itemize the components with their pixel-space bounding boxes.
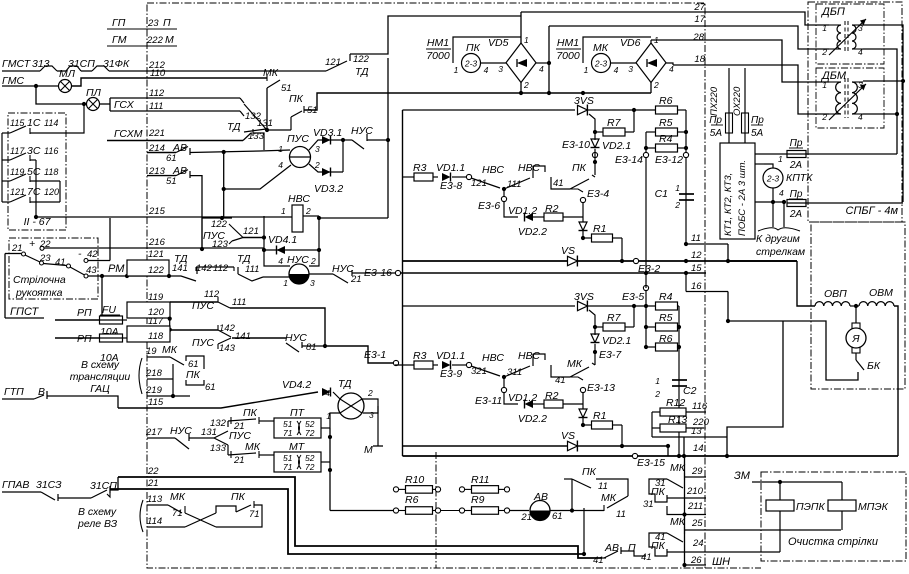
contact ГТП-В fixed — [46, 391, 48, 399]
lamp ПЛ — [87, 98, 100, 111]
svg-text:ПОБС - 2А 3 шт.: ПОБС - 2А 3 шт. — [737, 160, 748, 236]
svg-text:Пр: Пр — [751, 115, 764, 126]
junction 116-215 — [34, 215, 38, 219]
wire ГТП — [2, 398, 34, 400]
junction R1-bottom E2- — [620, 444, 624, 448]
wire НУС-ПУС — [189, 437, 214, 439]
machine ТД circle — [338, 393, 364, 419]
МТ contact squiggle — [297, 455, 301, 469]
contact ПК ВЗ blade — [236, 505, 251, 512]
contact ПУС blade upper — [232, 227, 243, 238]
svg-text:R1: R1 — [593, 223, 606, 235]
vertical R7 right E2- — [633, 306, 635, 327]
contact 31СП fixed — [109, 486, 111, 493]
wire НУС to bus 388 — [367, 139, 388, 141]
contact 31ФК — [92, 66, 109, 71]
svg-text:72: 72 — [305, 462, 315, 472]
svg-text:115: 115 — [10, 118, 25, 128]
vertical 15-16 — [685, 273, 687, 292]
wire 214 — [147, 152, 176, 154]
svg-text:МЛ: МЛ — [59, 68, 76, 80]
svg-text:Е3-15: Е3-15 — [637, 457, 665, 469]
ZM unit Очистка стрілки dash-dot box — [761, 472, 906, 561]
svg-text:ОВМ: ОВМ — [869, 287, 893, 299]
wire ДБМ pin3 — [863, 80, 903, 82]
junction VD5 minus — [519, 91, 523, 95]
wire ПУС down branch — [227, 445, 229, 455]
resistor R10 — [406, 486, 433, 494]
transformer ДБП adjust arrow — [829, 19, 866, 55]
transformer block DBP dashed box — [816, 4, 884, 64]
plug node R6 left — [393, 508, 398, 513]
vertical R12-R13 left — [651, 412, 653, 437]
svg-text:4: 4 — [539, 64, 544, 74]
wire 116 stub — [686, 411, 706, 413]
wire VD6 pin2 down — [650, 83, 652, 94]
diode VD3.1 — [322, 136, 331, 145]
diode VD4.2 — [322, 388, 331, 397]
contact fixed 133 — [240, 111, 244, 116]
lamp МЛ — [59, 80, 72, 93]
handle contact circle 43 — [84, 274, 88, 278]
svg-text:5А: 5А — [710, 128, 723, 139]
svg-text:НВС: НВС — [518, 162, 540, 174]
wire 7С left — [2, 201, 10, 203]
contact АВ-61 fixed — [189, 148, 191, 155]
wire ОВП-ОВМ b — [856, 305, 859, 307]
svg-text:ГСХ: ГСХ — [114, 99, 135, 111]
svg-text:3: 3 — [315, 144, 320, 154]
vertical contact column x=684.5 — [684, 456, 686, 565]
svg-text:61: 61 — [552, 511, 563, 522]
svg-text:НВС: НВС — [288, 193, 310, 205]
wire to НУС machine pin1 — [263, 276, 289, 278]
wire МК-21 to МТ block — [259, 454, 274, 456]
contact НУС-81 fixed — [301, 342, 303, 348]
svg-text:117: 117 — [148, 316, 164, 327]
wire КТ to КПТК — [755, 163, 764, 165]
svg-text:П: П — [628, 542, 636, 554]
junction R7 top — [632, 108, 636, 112]
diode VD1.2 E2+ — [525, 213, 534, 222]
fraction bar НМ1-1 — [426, 48, 451, 50]
wire VD1.1 to Е3-9 — [452, 364, 466, 366]
svg-text:22: 22 — [147, 466, 159, 477]
resistor R1 E2+ — [592, 234, 613, 242]
svg-text:28: 28 — [692, 32, 704, 43]
ammeter АВ — [530, 501, 550, 521]
wire 213 down to ПУС block — [190, 176, 202, 218]
relay box 119-120 — [127, 302, 170, 318]
svg-text:МПЭК: МПЭК — [858, 501, 889, 513]
wire 41 to Е3-13 — [570, 377, 583, 380]
wire 43 out to РМ-ТД row — [88, 275, 169, 277]
underline FU-2 — [100, 341, 120, 343]
wire 16 — [686, 291, 728, 293]
junction НМ1-2 supply — [581, 91, 585, 95]
wire ДБМ 1 — [829, 81, 841, 83]
svg-text:121: 121 — [325, 57, 341, 68]
junction R5 right — [684, 130, 688, 134]
wire 215 to НВС coil pin1 — [36, 216, 292, 218]
svg-text:42: 42 — [87, 249, 98, 260]
wire pin2 to VD3.2 — [309, 164, 343, 172]
junction 214 column — [222, 150, 226, 154]
svg-text:51: 51 — [166, 176, 177, 187]
vertical box1 to wire 117 — [169, 319, 171, 330]
contact НВС-311 fixed — [532, 354, 534, 366]
wire VD2.2 down E2- — [582, 418, 584, 425]
stub к другим 1 — [772, 202, 774, 227]
svg-text:31СЗ: 31СЗ — [36, 479, 62, 491]
wire 21 down to ГПСТ — [4, 254, 6, 319]
contact МК-21 tick l — [230, 451, 232, 458]
main interlocking unit dash-dot border — [147, 3, 705, 568]
wire 13-14 box right — [726, 437, 728, 456]
svg-text:1: 1 — [822, 23, 827, 33]
wire R6 right — [677, 109, 686, 111]
svg-text:1: 1 — [655, 376, 660, 386]
fuse FU-1 — [100, 316, 123, 324]
wire R6 right E2- — [678, 346, 680, 348]
wire ПТ out — [321, 427, 330, 429]
node Е3-14 — [643, 152, 648, 157]
svg-text:1: 1 — [454, 65, 459, 75]
svg-text:НМ1: НМ1 — [557, 37, 579, 49]
underline GP-23-P terminal — [107, 28, 177, 30]
junction БК return — [726, 319, 730, 323]
wire R7 a — [595, 131, 603, 133]
svg-text:115: 115 — [148, 397, 164, 408]
wire КПТК pin1 — [764, 164, 773, 168]
svg-text:221: 221 — [148, 128, 165, 139]
vertical R45 left — [645, 132, 647, 152]
underline GM-222-M terminal — [107, 45, 177, 47]
wire 42 out — [88, 260, 110, 262]
svg-text:3: 3 — [628, 64, 633, 74]
svg-text:133: 133 — [210, 443, 227, 454]
wire R12 left — [652, 411, 660, 413]
transformer ДБМ primary coil — [836, 82, 841, 114]
svg-text:МТ: МТ — [289, 441, 306, 453]
svg-text:2: 2 — [310, 256, 316, 266]
thyristor 3VS E2- — [578, 301, 588, 312]
svg-text:218: 218 — [145, 368, 163, 379]
wire VD3 join vertical — [342, 140, 344, 172]
svg-text:ГП: ГП — [112, 17, 126, 29]
handle wire 23-41 — [44, 264, 67, 266]
wire ammeter out — [550, 510, 604, 512]
handle blade 21-23 — [25, 255, 40, 262]
wire 211 left — [667, 506, 685, 515]
svg-text:VD2.1: VD2.1 — [602, 335, 631, 347]
junction R4 left — [644, 146, 648, 150]
node Е3-6 — [501, 196, 506, 201]
wire 3С left — [2, 159, 10, 161]
junction ПУС block on wire 216 — [200, 247, 204, 251]
contact МК-11 blade — [607, 496, 628, 508]
svg-text:3С: 3С — [27, 145, 41, 157]
junction 214 on wire 215 — [220, 216, 224, 220]
svg-text:72: 72 — [305, 428, 315, 438]
svg-text:МК: МК — [670, 462, 686, 474]
wire ТД pin1 down — [330, 413, 340, 428]
svg-text:120: 120 — [44, 187, 59, 197]
svg-text:4: 4 — [614, 65, 619, 75]
wire to Е3-6 — [503, 190, 505, 196]
junction C2 column Е3-15 — [677, 454, 681, 458]
svg-text:4: 4 — [278, 256, 283, 266]
svg-text:МК: МК — [601, 492, 617, 504]
jumper 142-112 bar — [196, 266, 234, 268]
contact АВ-51 fixed — [189, 171, 191, 178]
wire 112 to ТД-132 — [110, 97, 240, 99]
svg-text:МК: МК — [670, 516, 686, 528]
contact ПК ВЗ fixed path — [216, 506, 236, 513]
svg-text:114: 114 — [44, 118, 58, 128]
cross wire 2 ВЗ — [185, 513, 216, 527]
wire to ТД pin4 — [333, 392, 340, 399]
contact 7С blade — [10, 195, 26, 202]
block ПК-41 — [649, 533, 667, 556]
contact ПК fixed E2+ — [592, 175, 595, 177]
vertical Е3-5 into E2- — [645, 291, 647, 347]
wire R1 a E2- — [583, 424, 591, 426]
svg-text:ОВП: ОВП — [824, 288, 847, 300]
svg-text:121: 121 — [148, 249, 164, 260]
wire НВС pin2 — [303, 215, 319, 217]
wire БК branch to 13-14 — [727, 321, 783, 437]
wire ДБП pin4 bus — [863, 49, 897, 154]
svg-text:143: 143 — [219, 343, 236, 354]
svg-text:Е3-12: Е3-12 — [655, 154, 683, 166]
contact 31СЗ fixed — [57, 494, 59, 501]
wire АВ-П a — [602, 557, 606, 559]
wire R7 b E2- — [625, 326, 634, 328]
relay РМ coil box — [127, 260, 169, 276]
bracket ГАЦ — [139, 358, 142, 394]
vertical R1 right — [621, 238, 623, 261]
underline FU-1 — [100, 314, 120, 316]
contact ПК-51 blade — [291, 111, 302, 117]
wire to lamp ПЛ — [36, 86, 87, 104]
svg-text:11: 11 — [616, 509, 626, 520]
junction R4 right — [684, 146, 688, 150]
svg-text:ГМ: ГМ — [112, 34, 127, 46]
svg-text:2А: 2А — [789, 209, 803, 220]
wire 214 to ПУС machine pin1 — [190, 150, 290, 153]
svg-text:2: 2 — [305, 206, 311, 216]
svg-text:VD4.1: VD4.1 — [268, 234, 297, 246]
junction РМ left — [125, 274, 129, 278]
diode VD4.1 — [277, 246, 286, 255]
wire 212 segment b — [57, 70, 66, 72]
wire ПК-21 to ПТ block — [259, 420, 274, 422]
wire VD4.1 row — [264, 249, 319, 251]
wire R5 left — [646, 131, 656, 133]
junction box1 bottom — [168, 317, 172, 321]
wire 13 — [652, 436, 684, 438]
svg-text:В схему: В схему — [78, 506, 117, 518]
wire VD2.1 to ПК contact — [594, 149, 596, 175]
wire 111 ГСХ to ТД-133 — [110, 110, 240, 112]
contact 61 fixed piece — [186, 356, 204, 369]
fuse Пр 5А ПХ — [726, 113, 733, 133]
wire resistor row left — [330, 510, 394, 512]
handle contact circle 41 — [67, 264, 71, 268]
wire pin3 to VD3.1 — [309, 140, 343, 150]
svg-text:R4: R4 — [659, 291, 673, 303]
contact ГТП-В blade — [34, 395, 44, 399]
svg-text:ГТП: ГТП — [4, 386, 24, 398]
svg-text:1: 1 — [278, 144, 283, 154]
svg-text:ТД: ТД — [338, 378, 352, 390]
svg-text:ПЭПК: ПЭПК — [796, 501, 826, 513]
contact fixed 132 — [240, 98, 244, 103]
wire 16 down to БК return — [727, 292, 729, 322]
vertical x=330 to resistor row — [329, 428, 331, 511]
phase contact МК circle — [592, 54, 611, 73]
wire R10 a — [398, 488, 405, 490]
wire НВС upper link — [533, 166, 545, 172]
svg-text:Е3-9: Е3-9 — [440, 368, 462, 380]
svg-text:71: 71 — [283, 462, 293, 472]
contact АВ-П blade — [604, 551, 618, 558]
contact НУС-81 blade — [286, 343, 299, 352]
wire 13-14 box top — [684, 436, 727, 438]
svg-text:ПУС: ПУС — [287, 133, 309, 145]
wire VD2.1 top E2- — [594, 327, 596, 335]
junction ПУС pin4 branch — [222, 187, 226, 191]
wire ПК-11 corner — [596, 479, 628, 496]
wire line17 down to supply — [548, 26, 550, 93]
wire ДБМ 2 — [829, 113, 841, 115]
stub к другим 2 — [783, 202, 785, 227]
svg-text:VD3.2: VD3.2 — [314, 183, 343, 195]
contact 142 tick — [217, 325, 219, 330]
wire 25 to МПЭК — [685, 529, 842, 531]
junction R6 left E2- — [644, 345, 648, 349]
wire ТД pins 2-3 join — [362, 399, 378, 413]
junction 117 — [168, 328, 172, 332]
contact АВ-51 blade — [176, 170, 188, 176]
wire to ammeter — [509, 510, 529, 512]
svg-text:5А: 5А — [751, 128, 764, 139]
wire 31СП to 21 — [107, 488, 110, 497]
svg-text:ПУС: ПУС — [192, 337, 214, 349]
svg-text:2: 2 — [523, 80, 529, 90]
svg-text:реле ВЗ: реле ВЗ — [77, 518, 118, 530]
contact МК-51 tick — [266, 75, 268, 81]
wire НВС upper link E2- — [533, 354, 545, 360]
svg-text:7000: 7000 — [556, 50, 580, 62]
svg-text:61: 61 — [166, 153, 177, 164]
svg-text:R6: R6 — [659, 95, 673, 107]
wire КТ bottom to fuse 2А-2 — [755, 201, 784, 203]
svg-text:1: 1 — [778, 154, 783, 164]
relay box 117-118 — [127, 326, 170, 342]
svg-text:Е3-5: Е3-5 — [622, 291, 644, 303]
wire ТД output to rectifier line 27 — [350, 16, 521, 54]
contact 3С fixed — [29, 155, 31, 161]
wire ДБП pin3 right bus — [863, 25, 903, 202]
node Е3-1 — [393, 360, 398, 365]
wire R11 b — [498, 488, 505, 490]
svg-text:Е3-11: Е3-11 — [475, 395, 502, 407]
wire R6 left E2- — [646, 346, 656, 348]
svg-text:5С: 5С — [27, 166, 41, 178]
contact 5С blade — [10, 174, 26, 181]
svg-text:Е3-4: Е3-4 — [587, 188, 609, 200]
electro-heater МПЭК — [828, 500, 856, 511]
contact ПУС-123 tick — [229, 241, 232, 244]
svg-text:2-3: 2-3 — [464, 59, 478, 69]
wire 11 jog down — [727, 244, 729, 261]
contact ПК-51 tick — [303, 106, 305, 113]
contact 1С blade — [10, 126, 26, 133]
svg-text:R5: R5 — [659, 117, 673, 129]
contact НУС-217 fixed — [188, 434, 190, 441]
contact 111 blade — [218, 302, 230, 308]
wire В down — [47, 396, 118, 408]
svg-text:116: 116 — [692, 401, 708, 412]
wire fuse2 to КТ box — [744, 133, 746, 143]
wire R3-VD1.1 — [433, 176, 438, 178]
wire ПУС block left edge — [201, 218, 203, 249]
wire ЗМ — [752, 481, 842, 483]
wire ДБП 3 — [852, 24, 863, 26]
wire ПЭПК to 24 — [779, 511, 781, 552]
wire 110 from lamp МЛ to МК contact — [72, 78, 267, 86]
wire VD1.2-R2 E2- — [533, 403, 544, 405]
svg-text:ПУС: ПУС — [192, 300, 214, 312]
svg-text:Е3-2: Е3-2 — [638, 263, 660, 275]
svg-text:313: 313 — [32, 58, 50, 70]
main wire 12 Е3-2 — [403, 260, 798, 262]
contact МК-29 fixed — [684, 473, 686, 480]
svg-text:МК: МК — [593, 42, 609, 54]
svg-text:4: 4 — [278, 160, 283, 170]
wire ОХ220 — [744, 68, 746, 113]
wire VD1.1 to Е3-8 — [452, 176, 466, 178]
wire ПК-51 moving side b — [290, 117, 292, 130]
svg-text:Пр: Пр — [790, 138, 803, 149]
junction R6r E2- — [677, 345, 681, 349]
svg-text:26: 26 — [690, 555, 702, 566]
svg-text:VD2.2: VD2.2 — [518, 226, 547, 238]
contact ТД-111 fixed — [237, 267, 239, 274]
thyristor VS E2- — [568, 441, 578, 452]
svg-text:Е3-1: Е3-1 — [364, 349, 386, 361]
svg-text:VD5: VD5 — [488, 37, 509, 49]
handle contact circle 21 — [22, 252, 26, 256]
diode VD1.2 E2- — [525, 400, 534, 409]
svg-text:R10: R10 — [405, 474, 424, 486]
svg-text:31: 31 — [643, 499, 654, 510]
svg-text:118: 118 — [148, 331, 164, 342]
II-67 contact block box (1С-7С) — [8, 113, 66, 230]
contact НВС-311 blade — [504, 366, 530, 377]
wire to МПЭК — [841, 482, 843, 500]
wire fuse 2А-2 right — [806, 202, 903, 204]
svg-text:4: 4 — [779, 188, 784, 198]
resistor R7 E2+ — [603, 128, 625, 136]
svg-text:НВС: НВС — [518, 350, 540, 362]
junction ПТ column — [328, 435, 332, 439]
svg-text:РМ: РМ — [108, 263, 125, 275]
cross wire 1 ВЗ — [185, 513, 216, 527]
bridge rectifier VD6 — [636, 43, 666, 83]
